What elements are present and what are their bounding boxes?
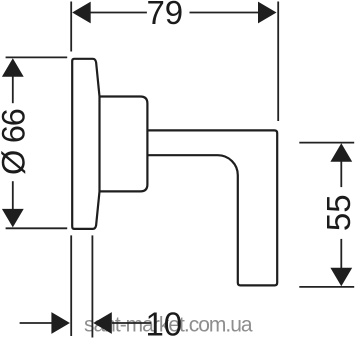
extension line: grip bottom (for 55) <box>299 286 354 288</box>
hub (valve boss) <box>100 97 148 192</box>
arrow pointing left (10) <box>93 312 112 334</box>
extension line: escutcheon bottom (for diameter 66) <box>6 227 68 229</box>
svg-text:55: 55 <box>320 194 357 231</box>
arrow up (66) <box>2 58 24 77</box>
escutcheon (wall plate, side profile) <box>72 59 99 229</box>
svg-text:79: 79 <box>146 0 183 31</box>
arrow up (55) <box>330 143 352 162</box>
dimension line 79 <box>90 12 147 14</box>
extension line: handle centerline (top, for 55) <box>299 142 354 144</box>
extension line: grip right edge (top, for 79) <box>277 2 279 122</box>
extension line: escutcheon face depth (bottom, for 10) <box>91 235 93 337</box>
arrow down (66) <box>2 209 24 228</box>
svg-text:10: 10 <box>145 306 182 339</box>
dimension line 10 (right tail) <box>112 322 151 324</box>
extension line: escutcheon left face (top, for 79) <box>70 2 72 52</box>
dimension line 55 <box>340 161 342 187</box>
arrow pointing right (10) <box>51 312 70 334</box>
arrow left (79) <box>72 2 91 24</box>
lever handle (arm + grip) <box>147 130 277 285</box>
dimension line 10 (left tail) <box>20 322 52 324</box>
dimension line diameter 66 <box>12 76 14 103</box>
extension line: escutcheon top (for diameter 66) <box>6 56 68 58</box>
arrow right (79) <box>258 2 277 24</box>
svg-text:Ø 66: Ø 66 <box>0 109 31 175</box>
arrow down (55) <box>330 268 352 287</box>
extension line: escutcheon left face (bottom, for 10) <box>70 235 72 336</box>
